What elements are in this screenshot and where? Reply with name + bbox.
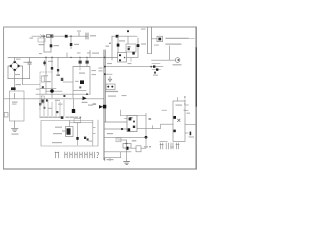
vertical x146 low xyxy=(145,137,147,148)
ticks on x93 xyxy=(93,128,95,134)
output label speck xyxy=(160,141,168,142)
speck at 80 117 xyxy=(80,117,82,119)
wire y94 xyxy=(36,93,64,95)
wire vertical x118 xyxy=(117,36,119,52)
label in T1 xyxy=(79,73,85,74)
junction y66.5 xyxy=(104,66,106,68)
tick x152 xyxy=(152,126,154,129)
left border connector xyxy=(4,113,8,118)
vertical x77 xyxy=(77,123,79,146)
label in lower box b xyxy=(53,133,62,134)
thermistor RT1 squiggle xyxy=(14,94,16,99)
label left column xyxy=(99,68,103,69)
secondary bus pair a xyxy=(147,27,149,54)
wire vertical x22.5 below rail xyxy=(22,79,24,85)
fuse F1 xyxy=(47,35,54,38)
question dot xyxy=(97,157,98,158)
U1 inner dark mark a xyxy=(129,118,132,121)
ground GND3 xyxy=(124,162,130,165)
T1 core mark xyxy=(79,86,81,88)
wire y151.6 xyxy=(104,151,131,153)
label under U4 xyxy=(105,91,118,92)
border frame right dark segment xyxy=(195,48,197,106)
node junction J5 xyxy=(104,57,106,59)
text small left xyxy=(141,43,146,44)
label left under y129 xyxy=(107,133,113,134)
module top stub xyxy=(177,97,179,101)
wire y74 xyxy=(104,73,112,75)
node junction J4 xyxy=(51,57,53,59)
small top box in lower section xyxy=(74,119,81,123)
node blob J6 xyxy=(50,89,54,93)
bus speck b xyxy=(77,52,81,53)
bridge rectifier B1 diamond xyxy=(10,62,19,71)
wire vertical x138 xyxy=(137,38,139,57)
main bus y98.5 xyxy=(4,98,104,100)
dark tick right of labels xyxy=(61,116,64,119)
U4 dot a xyxy=(107,86,109,88)
junction blob on pair xyxy=(103,105,106,109)
small parts under bus xyxy=(39,103,41,105)
B1 diode dot S xyxy=(14,69,16,71)
label RT1 xyxy=(12,102,18,103)
wire U2 out right xyxy=(127,57,139,59)
component R3 inside box xyxy=(41,76,44,82)
wire stub y110 xyxy=(162,109,167,111)
wire stub x79 xyxy=(78,33,80,37)
IC U1 box xyxy=(127,116,137,132)
label box L1 xyxy=(38,38,45,42)
speck b xyxy=(63,95,65,97)
capacitor C7 dark blob xyxy=(72,109,75,113)
bus junction dot b xyxy=(79,57,80,58)
wire module to ground xyxy=(14,121,16,128)
wire B1 top to bus xyxy=(14,57,16,61)
wire vertical x46 xyxy=(45,57,47,94)
wire B1 west leg xyxy=(8,66,10,79)
B1 diode dot E xyxy=(17,65,19,67)
cluster dot a xyxy=(153,65,155,67)
wire top mid y36 xyxy=(112,35,137,37)
pin row labels right part xyxy=(66,116,78,118)
cluster dot b xyxy=(156,68,158,70)
main bus y57 xyxy=(8,56,118,58)
bus junction dots xyxy=(70,57,71,58)
module pin right y133 xyxy=(185,132,188,134)
node dot top xyxy=(127,30,129,32)
M1 inner dot xyxy=(177,59,179,61)
component near 57 75 xyxy=(57,74,60,76)
capacitor C9 blob xyxy=(132,52,135,55)
wire y122.5 in box xyxy=(70,122,93,124)
wire y128.7 right xyxy=(137,128,160,130)
connector vertical x160.5 xyxy=(160,124,162,129)
U1 pin dark blob bottom left xyxy=(128,128,131,131)
wire y53 stub xyxy=(148,53,152,55)
bus extension y66.6 xyxy=(152,66,164,68)
optocoupler U2 box xyxy=(118,53,127,63)
regulator module box xyxy=(173,101,185,142)
input module box xyxy=(10,91,25,121)
label under out wire xyxy=(128,63,132,64)
label RT1 second xyxy=(12,104,17,105)
label left of pair xyxy=(92,53,99,54)
connector K1 box xyxy=(157,36,163,42)
border frame right side xyxy=(195,27,197,169)
wire B1 east leg xyxy=(19,66,22,79)
B1 diode dot W xyxy=(10,65,12,67)
U1 inner arc mark xyxy=(129,116,133,119)
capacitor C4 bottom lead xyxy=(29,64,31,78)
text small mid xyxy=(154,45,159,46)
speck a xyxy=(42,86,44,88)
junction dot y94 xyxy=(86,93,88,95)
junction y74 xyxy=(104,73,106,75)
ground GND2 triangle xyxy=(108,77,111,82)
wire y115.5 stub xyxy=(120,115,146,117)
bus speck c xyxy=(87,52,91,53)
border frame xyxy=(4,27,196,169)
label right of T1 b xyxy=(92,74,97,75)
wire stub x67 top xyxy=(66,53,68,57)
diode D5 blob xyxy=(116,35,119,38)
main vertical pair left line xyxy=(103,50,105,160)
dashed suppressor box edge xyxy=(40,72,52,110)
transistor Q3 blob xyxy=(86,61,89,64)
label C3 xyxy=(74,44,79,45)
wire y66.5 xyxy=(104,66,152,68)
label text under L1 xyxy=(39,44,45,45)
label above stub xyxy=(77,31,81,32)
K1 dark blob xyxy=(158,38,161,41)
capacitor C4 top lead xyxy=(29,57,31,61)
R2 blob xyxy=(43,62,45,65)
comb verticals to pin row xyxy=(40,100,64,116)
label under M1 xyxy=(173,64,182,65)
capacitor box C12 xyxy=(123,144,131,149)
text in right box xyxy=(144,146,148,147)
module label xyxy=(176,105,183,106)
wire y124 into module xyxy=(161,123,173,125)
small speck left xyxy=(149,146,150,147)
wire y94 extension xyxy=(64,93,90,95)
module dark dot lower xyxy=(173,130,175,133)
junction y129 xyxy=(121,128,123,130)
capacitor C4 plates xyxy=(28,62,31,64)
diode D1 blob xyxy=(65,35,68,38)
pin row labels xyxy=(40,116,61,118)
wire x128 from bus to U3 xyxy=(127,36,129,44)
question mark glyph xyxy=(97,152,99,155)
wire vertical x44 xyxy=(43,36,45,52)
wire y129 xyxy=(104,128,127,130)
label B1 xyxy=(16,59,21,60)
connector pin row group xyxy=(55,152,94,158)
wire y137 xyxy=(104,136,146,138)
label top right of pairs xyxy=(141,29,146,30)
resistor R2 xyxy=(44,61,46,66)
label left of T2 xyxy=(62,131,65,132)
label in lower box xyxy=(55,127,62,128)
T2 link to top xyxy=(69,121,71,127)
lower left big box xyxy=(41,120,98,146)
label between verticals xyxy=(16,84,22,85)
arrow into bus junction xyxy=(99,105,103,109)
ground GND1 xyxy=(12,128,18,131)
wire vertical x14.7 below rail xyxy=(14,79,16,91)
capacitor C3 blob xyxy=(70,43,73,46)
U1 pin dark blob mid right xyxy=(133,126,135,128)
capacitor C1 plates xyxy=(86,33,88,39)
opto U4 box xyxy=(106,84,115,90)
T1 top tick xyxy=(79,67,81,70)
wire stub to border xyxy=(189,37,195,39)
wire y88.5 xyxy=(40,88,56,90)
diode D6 blob xyxy=(117,44,120,47)
label under Q1 xyxy=(44,81,51,82)
vertical text strip xyxy=(184,96,186,111)
U3 inner dark dot xyxy=(128,48,130,50)
pin label y113 xyxy=(187,113,191,114)
wire stub x87 xyxy=(86,57,88,66)
vertical x126.5 down xyxy=(126,140,128,161)
label under U4 b xyxy=(108,96,116,97)
border frame bottom reinforcement xyxy=(4,168,197,170)
U2 pin dot xyxy=(124,57,126,59)
module pin right y110.5 xyxy=(185,110,188,112)
capacitor C5 blob xyxy=(51,67,53,70)
label in T1 low xyxy=(75,81,79,82)
U3 inner mark xyxy=(128,46,131,47)
node junction J1 xyxy=(43,35,45,37)
blob x58 xyxy=(57,69,59,71)
switch S1 mark xyxy=(41,35,44,38)
wire vertical x51 xyxy=(50,36,52,52)
small part 3 xyxy=(43,107,45,109)
component box right xyxy=(136,146,141,152)
label right xyxy=(88,105,93,106)
speck pair right xyxy=(93,103,97,104)
label in lower box c xyxy=(52,142,62,143)
bus junction dot c xyxy=(86,57,87,58)
wire y60 run xyxy=(152,59,176,61)
text speck rows mid d xyxy=(48,108,52,109)
label y159 xyxy=(107,159,114,160)
wire bottom rail y78.6 xyxy=(8,78,30,80)
label near x30 xyxy=(30,38,34,39)
wire x73 down xyxy=(73,99,75,109)
label C4 xyxy=(24,62,28,63)
wire x169.5 drop xyxy=(169,46,171,60)
vertical x120.6 xyxy=(120,152,122,158)
component box small left xyxy=(116,138,121,142)
wire K1 to bus xyxy=(152,38,158,40)
wire stub x90 top xyxy=(89,51,91,58)
speck c xyxy=(46,99,48,101)
label R2 xyxy=(48,61,53,62)
text speck rows mid xyxy=(36,89,40,90)
transistor Q1 cluster xyxy=(61,78,64,81)
aux transformer T2 xyxy=(66,127,74,137)
secondary bus pair b xyxy=(151,27,153,54)
label left of pair row2 xyxy=(99,70,103,71)
U4 dot b xyxy=(111,86,113,88)
label T1 speck xyxy=(106,46,110,47)
vertical x146 xyxy=(145,114,147,138)
label above U2 xyxy=(119,40,125,41)
Q4 mark b xyxy=(87,138,89,140)
tick near x110 xyxy=(109,43,111,44)
small wires y63-70 xyxy=(152,64,161,70)
wire y140 xyxy=(118,139,127,141)
label right of pair xyxy=(107,63,112,64)
junction on y66 bus right xyxy=(150,66,152,68)
T2 dark center xyxy=(67,128,71,134)
wire y148 links xyxy=(131,147,146,149)
bus specks above y57 xyxy=(39,53,42,54)
label C1 value xyxy=(90,35,96,36)
module dark dot upper xyxy=(173,116,176,119)
junction on box top xyxy=(126,143,128,145)
diode D7 blob xyxy=(137,44,140,47)
U2 transistor dot xyxy=(119,59,121,61)
component R4 inside box xyxy=(41,96,44,103)
pin label below xyxy=(189,136,195,137)
wire y157.6 xyxy=(104,157,121,159)
label C2 xyxy=(54,45,60,46)
U2 led dot xyxy=(119,54,121,56)
module pin right y105 xyxy=(185,104,189,106)
wire into T1 left xyxy=(63,81,73,83)
wire vertical x52 xyxy=(51,57,53,97)
text speck rows mid c xyxy=(58,104,63,105)
U1 pin stub y118.5 xyxy=(125,118,128,120)
wire y84.5 link xyxy=(23,84,41,86)
wire vertical x58 xyxy=(57,57,59,75)
module x mark xyxy=(178,119,181,122)
output cap symbol group xyxy=(160,143,179,149)
wire y91.2 xyxy=(46,90,62,92)
capacitor C2 blob xyxy=(50,44,53,47)
regulator box U3 xyxy=(126,44,136,52)
label right of Q4 xyxy=(89,141,94,142)
wire vertical x112 xyxy=(111,36,113,60)
arrow blob on bus xyxy=(83,96,87,100)
transistor Q4 marks xyxy=(84,137,86,139)
label under GND1 xyxy=(12,134,19,135)
R4 dark mark xyxy=(42,100,44,103)
text row 1 top right xyxy=(166,37,188,39)
label mid left xyxy=(15,74,20,75)
main vertical pair right line xyxy=(105,50,107,122)
speck near pair bottom xyxy=(122,95,127,96)
B1 diode dot N xyxy=(14,61,16,63)
wire B1 south leg xyxy=(14,71,16,79)
fuse end blob xyxy=(50,35,52,37)
ticks under y158 xyxy=(105,158,110,161)
junction dark y137 xyxy=(145,136,148,139)
label under arrow xyxy=(82,102,88,103)
vertical x120.4 stub xyxy=(119,110,121,116)
wire stub x80 xyxy=(79,57,81,66)
wire bottom link y52 xyxy=(44,51,51,53)
speck near x150 xyxy=(149,118,152,120)
label in box xyxy=(43,75,48,76)
module pin dark tick xyxy=(190,132,192,136)
text speck rows mid b xyxy=(55,100,60,101)
wire top bus y36 xyxy=(32,35,87,37)
label right of C12 xyxy=(132,140,137,141)
cluster dot c xyxy=(154,72,156,74)
transformer T1 outline xyxy=(73,67,90,98)
wire y122 xyxy=(104,121,127,123)
U1 inner dark mark b xyxy=(133,121,135,123)
fan motor M1 circle xyxy=(175,58,180,63)
text row 2 top right xyxy=(166,43,181,45)
module pin right y124.5 xyxy=(185,124,196,126)
small part 2 xyxy=(56,111,58,113)
transistor Q2 blob xyxy=(79,61,82,64)
cluster text xyxy=(153,75,158,76)
C12 dark blob xyxy=(126,147,129,150)
inductor L2 dark bar xyxy=(11,87,16,90)
node junction row on bus xyxy=(45,57,47,59)
wire vertical x71 xyxy=(70,36,72,48)
node junction J2 xyxy=(70,35,72,37)
label right of T1 xyxy=(92,70,97,71)
T1 winding dark blob xyxy=(80,80,84,84)
tick below out wire xyxy=(130,58,132,62)
diode blob on x77 xyxy=(76,137,78,140)
